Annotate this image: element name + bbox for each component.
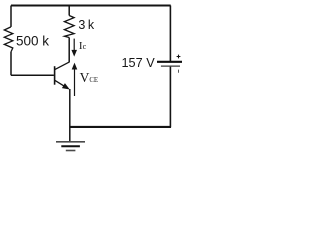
wire bottom rail (70, 126, 171, 128)
wire 3k branch top (68, 6, 70, 16)
current arrow IC head (71, 50, 77, 57)
voltage arrow VCE shaft (74, 69, 76, 96)
transistor Q1 collector lead (55, 62, 69, 70)
current arrow IC shaft (73, 39, 75, 51)
wire right vertical lower (169, 67, 171, 128)
ground bottom line (66, 150, 76, 152)
transistor Q1 emitter lead (55, 80, 66, 87)
transistor Q1 emitter arrowhead (62, 83, 70, 89)
wire right vertical upper (169, 6, 171, 62)
svg-text:500 k: 500 k (16, 33, 49, 48)
resistor R2 3 k (64, 16, 74, 38)
wire collector vertical (68, 38, 70, 63)
svg-text:157 V: 157 V (122, 56, 156, 70)
ground top line (56, 141, 85, 143)
wire left vertical lower (10, 52, 12, 75)
wire emitter vertical (69, 89, 71, 141)
wire base (11, 74, 54, 76)
battery V1 positive plate (157, 61, 182, 63)
voltage arrow VCE head (72, 63, 78, 70)
ground middle line (61, 145, 80, 147)
svg-text:Ic: Ic (79, 40, 87, 52)
svg-text:VCE: VCE (80, 70, 98, 85)
battery plus sign (177, 55, 181, 59)
wire top rail (11, 5, 171, 7)
battery V1 negative plate (161, 65, 180, 67)
wire left vertical upper (10, 6, 12, 27)
resistor R1 500 k (4, 27, 13, 52)
transistor Q1 base bar (54, 66, 56, 85)
battery minus tick (178, 70, 180, 73)
svg-text:3 k: 3 k (78, 18, 94, 32)
